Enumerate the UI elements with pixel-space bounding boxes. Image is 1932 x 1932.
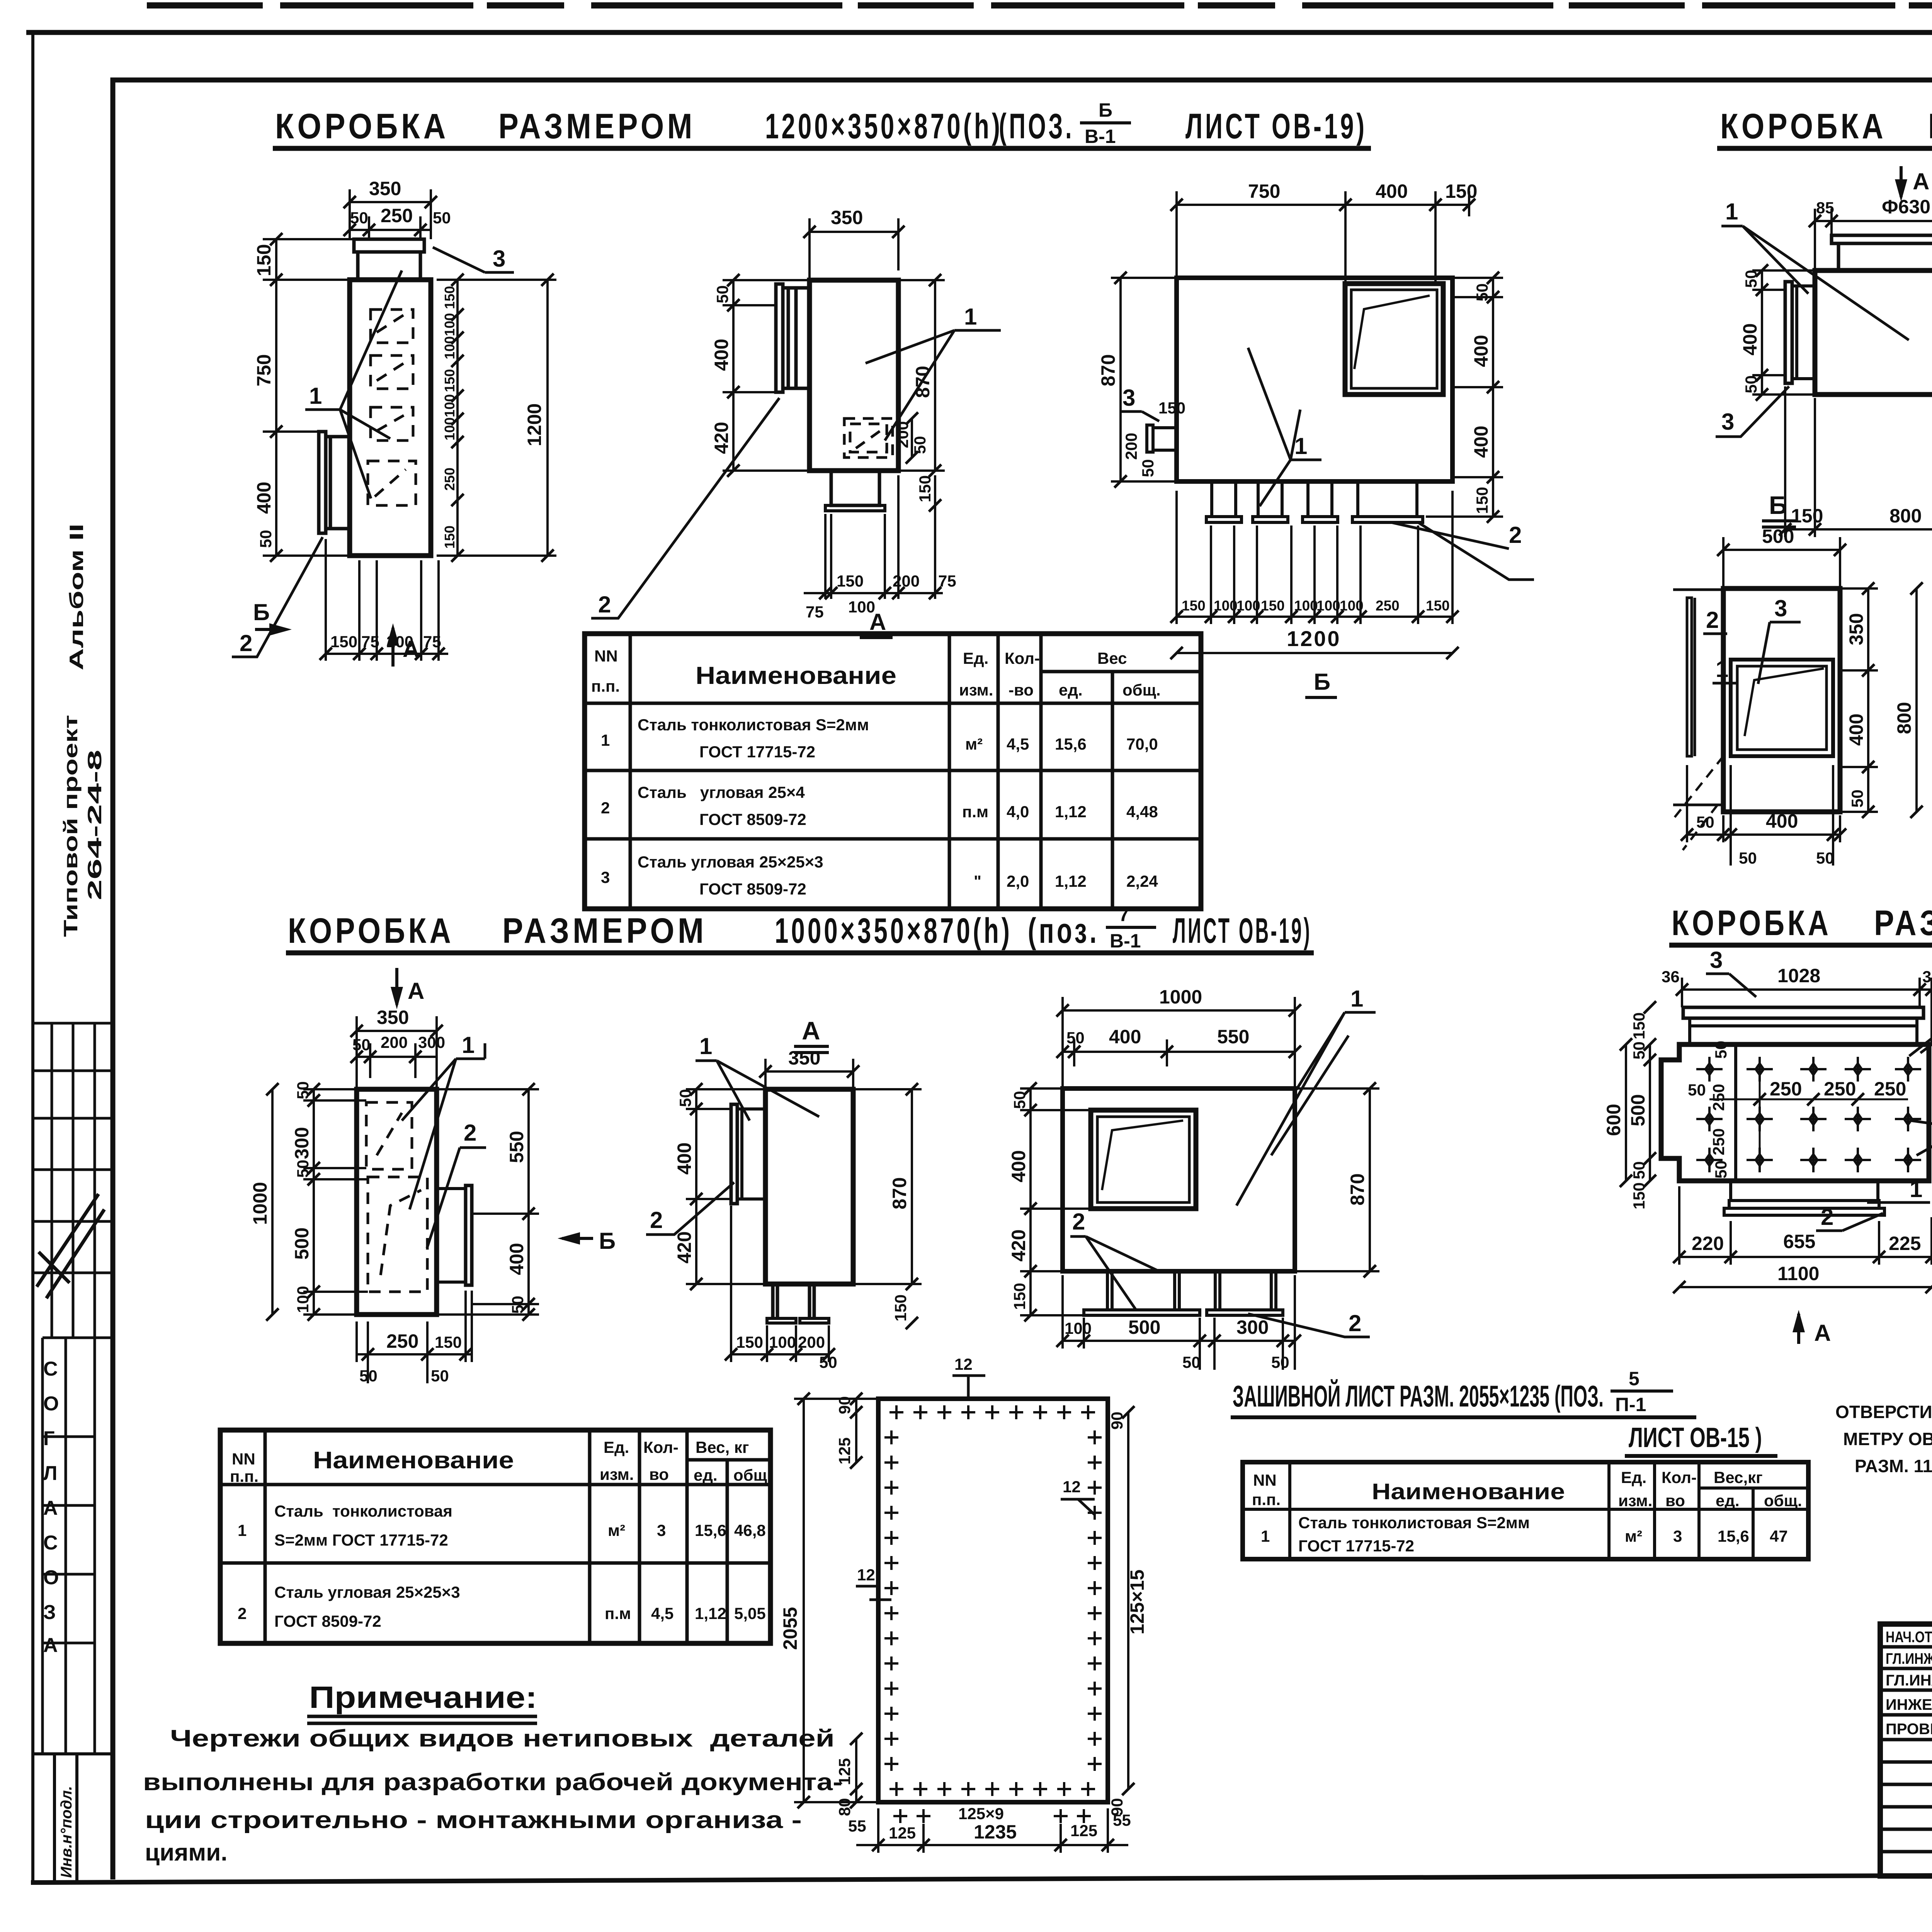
v21 top dims 85 Ф630 85 — [1809, 196, 1932, 270]
svg-text:А: А — [802, 1016, 820, 1045]
label 12 top — [952, 1355, 985, 1399]
sheet outline with stud marks — [878, 1399, 1108, 1802]
svg-text:ОТВЕРСТИЯ ПО ПЕРИ-: ОТВЕРСТИЯ ПО ПЕРИ- — [1835, 1402, 1932, 1422]
svg-text:м²: м² — [608, 1521, 625, 1539]
svg-text:420: 420 — [673, 1231, 695, 1264]
margin bottom box — [33, 1754, 113, 1880]
v33 top dim 1000 — [1056, 986, 1301, 1088]
svg-text:350: 350 — [831, 207, 863, 228]
margin vertical text Инв.No подл. — [58, 1786, 75, 1878]
svg-text:250: 250 — [1824, 1078, 1856, 1100]
svg-text:ПРОВЕР.: ПРОВЕР. — [1886, 1721, 1932, 1738]
svg-text:Г: Г — [43, 1427, 54, 1450]
svg-text:47: 47 — [1770, 1527, 1788, 1545]
svg-text:Наименование: Наименование — [696, 662, 896, 689]
svg-text:400: 400 — [1739, 323, 1761, 355]
note text lines — [143, 1725, 842, 1866]
svg-text:50: 50 — [1688, 1081, 1706, 1099]
svg-text:50: 50 — [1712, 1160, 1730, 1179]
svg-text:500: 500 — [1627, 1094, 1649, 1126]
label 12 right — [1061, 1478, 1095, 1515]
v41 plan view: main body — [1661, 1007, 1929, 1215]
svg-text:100: 100 — [1316, 598, 1340, 614]
v32 leader 2 — [646, 1182, 734, 1235]
svg-text:2,0: 2,0 — [1007, 872, 1029, 890]
v41 leader 1 bottom — [1867, 1176, 1930, 1202]
view2 right small dims 200 50 — [893, 412, 941, 512]
svg-text:1000: 1000 — [249, 1182, 271, 1225]
svg-text:1: 1 — [238, 1521, 247, 1539]
svg-text:15,6: 15,6 — [695, 1521, 726, 1539]
svg-text:1000×350×870(h): 1000×350×870(h) — [775, 911, 1012, 951]
svg-text:350: 350 — [369, 178, 401, 199]
v23 label 2 — [1703, 607, 1727, 634]
svg-text:4,5: 4,5 — [1007, 735, 1029, 753]
v33 leader 2 right — [1248, 1310, 1370, 1337]
svg-text:А: А — [408, 978, 424, 1004]
svg-text:3: 3 — [601, 868, 610, 886]
svg-text:3: 3 — [1721, 409, 1734, 435]
svg-text:м²: м² — [965, 735, 983, 753]
svg-text:225: 225 — [1889, 1233, 1921, 1254]
svg-text:100: 100 — [442, 417, 457, 440]
svg-text:Сталь угловая 25×25×3: Сталь угловая 25×25×3 — [638, 853, 823, 871]
svg-text:КОРОБКА: КОРОБКА — [1672, 903, 1832, 943]
svg-text:250: 250 — [1874, 1078, 1906, 1100]
margin vertical text: 264-24-8 — [84, 750, 105, 900]
svg-text:Сталь угловая 25×25×3: Сталь угловая 25×25×3 — [274, 1583, 460, 1601]
svg-text:150: 150 — [1473, 487, 1491, 514]
v41 bottom dims — [1673, 1186, 1932, 1293]
view1 leader 1 — [305, 270, 402, 498]
left small dims 125 80 bottom — [835, 1733, 866, 1835]
v33 leader 1 — [1236, 986, 1376, 1206]
svg-text:12: 12 — [954, 1355, 973, 1373]
svg-text:": " — [974, 872, 981, 890]
scan top edge artifact — [147, 2, 1932, 9]
v21 leader 3 left — [1716, 386, 1789, 437]
svg-text:NN: NN — [594, 647, 618, 665]
view3 bottom dim chain — [1170, 491, 1459, 624]
v23 bottom dims — [1681, 765, 1846, 867]
svg-text:1000: 1000 — [1159, 986, 1202, 1008]
svg-text:1: 1 — [1294, 433, 1307, 459]
svg-text:50: 50 — [433, 209, 451, 227]
view1 right dim chain — [442, 274, 464, 562]
svg-text:Вес,кг: Вес,кг — [1714, 1468, 1763, 1486]
v33 bottom dims — [1056, 1275, 1301, 1371]
v31 leader 2 — [427, 1120, 486, 1248]
svg-text:50: 50 — [819, 1353, 837, 1371]
v31 right dim chain — [437, 1083, 539, 1321]
svg-text:Наименование: Наименование — [313, 1447, 514, 1474]
svg-text:200: 200 — [1122, 433, 1140, 460]
svg-text:90: 90 — [1108, 1412, 1126, 1430]
svg-text:150: 150 — [1182, 598, 1206, 614]
svg-text:общ.: общ. — [1764, 1492, 1802, 1510]
svg-text:2: 2 — [1706, 607, 1719, 633]
svg-text:100: 100 — [1065, 1319, 1092, 1337]
view3 left flange — [1147, 425, 1177, 452]
svg-text:1: 1 — [309, 383, 322, 409]
svg-text:Инв.н°подл.: Инв.н°подл. — [58, 1786, 75, 1878]
svg-text:п.п.: п.п. — [1252, 1490, 1281, 1509]
svg-text:75: 75 — [423, 633, 441, 651]
svg-text:Кол-: Кол- — [643, 1438, 679, 1456]
svg-text:1: 1 — [1910, 1176, 1922, 1202]
svg-text:2055: 2055 — [779, 1607, 801, 1650]
view3 leader 3 and small dims — [1121, 385, 1185, 477]
v31 left dim chain — [291, 1081, 368, 1321]
svg-text:(поз.: (поз. — [1028, 911, 1099, 951]
svg-text:400: 400 — [1470, 426, 1492, 458]
svg-text:100: 100 — [294, 1286, 312, 1313]
svg-text:1100: 1100 — [1777, 1263, 1819, 1284]
v41 leader 3 — [1706, 947, 1756, 997]
svg-text:50: 50 — [1473, 283, 1491, 301]
svg-text:Типовой проект: Типовой проект — [60, 715, 82, 937]
svg-text:125: 125 — [835, 1437, 854, 1464]
svg-text:КОРОБКА: КОРОБКА — [275, 107, 449, 146]
svg-text:250: 250 — [1709, 1084, 1728, 1111]
svg-text:3: 3 — [1122, 385, 1135, 411]
svg-text:1: 1 — [1716, 656, 1728, 682]
svg-text:В-1: В-1 — [1085, 126, 1116, 147]
svg-text:Кол-: Кол- — [1005, 649, 1040, 667]
svg-text:15,6: 15,6 — [1718, 1527, 1749, 1545]
v31 section mark Б right — [558, 1228, 616, 1254]
svg-text:300: 300 — [1236, 1316, 1269, 1338]
v41 leader 1 top — [1909, 996, 1932, 1056]
view2 leader 1 — [866, 304, 1001, 440]
v33 bottom flanges — [1084, 1271, 1283, 1315]
svg-text:400: 400 — [1470, 335, 1492, 367]
view2 section label A — [860, 609, 893, 638]
svg-text:(ПОЗ.: (ПОЗ. — [999, 107, 1074, 146]
svg-text:циями.: циями. — [145, 1839, 228, 1866]
svg-text:500: 500 — [1762, 526, 1794, 547]
svg-text:50: 50 — [509, 1296, 527, 1314]
svg-text:7: 7 — [1119, 904, 1129, 925]
svg-text:50: 50 — [1742, 270, 1760, 288]
view2 side: main body — [810, 280, 898, 511]
svg-text:ед.: ед. — [694, 1466, 718, 1484]
stud marks right column — [1088, 1430, 1102, 1771]
stamp labels column — [1886, 1629, 1932, 1738]
svg-text:400: 400 — [253, 482, 275, 514]
svg-text:ГОСТ 8509-72: ГОСТ 8509-72 — [699, 880, 806, 898]
svg-text:655: 655 — [1783, 1231, 1815, 1252]
view3 leader 2 right — [1391, 522, 1534, 580]
svg-text:А: А — [1913, 168, 1929, 194]
svg-text:400: 400 — [1845, 714, 1867, 746]
svg-text:100: 100 — [1214, 598, 1238, 614]
title: Зашивной лист разм. 2055x1235 — [1231, 1368, 1777, 1456]
v32 section label A — [794, 1016, 829, 1053]
label 12 left — [856, 1566, 891, 1600]
svg-text:ции строительно - монтажными о: ции строительно - монтажными организа - — [145, 1807, 802, 1833]
svg-text:1: 1 — [964, 304, 977, 330]
view1 top dim 350 — [344, 178, 451, 239]
title: КОРОБКА РАЗМЕРОМ 500x800x800(h) — [1717, 97, 1932, 148]
table4 parts list — [1243, 1462, 1808, 1559]
svg-text:1028: 1028 — [1777, 965, 1820, 986]
sheet left border line — [31, 31, 34, 1883]
svg-text:2: 2 — [650, 1207, 663, 1233]
svg-text:870: 870 — [889, 1177, 910, 1209]
svg-text:400: 400 — [673, 1143, 695, 1175]
svg-text:ГОСТ 17715-72: ГОСТ 17715-72 — [699, 743, 815, 761]
svg-text:100: 100 — [1340, 598, 1364, 614]
title: КОРОБКА РАЗМЕРОМ 1200x350x870(h) — [273, 99, 1371, 148]
margin vertical text: Альбом II — [66, 524, 87, 670]
svg-text:50: 50 — [1630, 1041, 1648, 1060]
svg-text:80: 80 — [835, 1798, 854, 1816]
svg-text:выполнены для разработки рабоч: выполнены для разработки рабочей докумен… — [143, 1769, 842, 1796]
svg-text:Л: Л — [43, 1462, 58, 1485]
svg-text:3: 3 — [493, 246, 505, 272]
v23 leader 3 — [1758, 595, 1801, 684]
svg-text:125: 125 — [1070, 1821, 1097, 1840]
svg-text:1200: 1200 — [524, 403, 545, 446]
svg-text:100: 100 — [442, 336, 457, 359]
sheet bottom border line — [31, 1872, 1932, 1883]
svg-text:150: 150 — [837, 572, 864, 590]
svg-text:1: 1 — [1350, 986, 1363, 1012]
svg-text:250: 250 — [1376, 598, 1400, 614]
svg-text:100: 100 — [442, 394, 457, 417]
svg-text:220: 220 — [1692, 1233, 1724, 1254]
svg-text:125×9: 125×9 — [958, 1804, 1004, 1823]
svg-text:1200×350×870(h): 1200×350×870(h) — [765, 107, 1003, 146]
svg-text:общ.: общ. — [1122, 681, 1161, 699]
svg-text:во: во — [649, 1465, 669, 1483]
view2 dashed opening — [844, 418, 893, 457]
svg-text:50: 50 — [257, 530, 275, 548]
svg-text:50: 50 — [1271, 1353, 1289, 1371]
svg-text:200: 200 — [381, 1033, 408, 1051]
svg-text:Сталь тонколистовая S=2мм: Сталь тонколистовая S=2мм — [638, 716, 869, 734]
svg-text:м²: м² — [1625, 1527, 1642, 1545]
svg-text:п.п.: п.п. — [230, 1467, 259, 1485]
svg-text:п.м: п.м — [962, 803, 988, 821]
view1 front: main body — [350, 239, 431, 556]
svg-text:800: 800 — [1889, 505, 1922, 527]
note header Примечание — [307, 1680, 537, 1723]
svg-text:36: 36 — [1662, 968, 1680, 986]
svg-text:150: 150 — [1630, 1012, 1648, 1039]
svg-text:50: 50 — [350, 209, 368, 227]
v31 leader 1 — [402, 1032, 485, 1209]
view1 leader 2 — [232, 537, 323, 657]
svg-text:600: 600 — [1603, 1104, 1624, 1136]
svg-text:50: 50 — [1066, 1029, 1085, 1047]
svg-text:А: А — [1814, 1320, 1831, 1346]
svg-text:Вес: Вес — [1097, 649, 1127, 667]
svg-text:Ед.: Ед. — [1621, 1468, 1646, 1486]
v23 label 1 — [1713, 656, 1736, 683]
svg-text:500: 500 — [291, 1228, 313, 1260]
svg-text:420: 420 — [711, 422, 732, 454]
v41 left dim chain — [1603, 1001, 1656, 1209]
view3 leader 1 — [1248, 348, 1321, 506]
v21 leader 1 — [1721, 199, 1909, 340]
v33 right dim 870 — [1295, 1082, 1379, 1277]
svg-text:РАЗМЕРОМ: РАЗМЕРОМ — [1928, 107, 1932, 146]
svg-text:ГЛ.ИНЖ.ОТД.: ГЛ.ИНЖ.ОТД. — [1886, 1650, 1932, 1667]
svg-text:75: 75 — [361, 633, 379, 651]
svg-text:150: 150 — [253, 244, 275, 276]
svg-text:С: С — [43, 1358, 58, 1380]
svg-text:50: 50 — [1848, 789, 1866, 808]
v23 right dim chain — [1840, 582, 1878, 818]
svg-text:РАЗМЕРОМ: РАЗМЕРОМ — [1874, 903, 1932, 943]
svg-text:ИНЖЕНЕР: ИНЖЕНЕР — [1886, 1696, 1932, 1713]
svg-text:50: 50 — [1010, 1091, 1029, 1109]
svg-text:ЛИСТ ОВ-15 ): ЛИСТ ОВ-15 ) — [1629, 1422, 1762, 1453]
svg-text:550: 550 — [1217, 1026, 1249, 1048]
v21 left dim chain — [1739, 264, 1815, 401]
svg-text:100: 100 — [1236, 598, 1260, 614]
svg-text:Б: Б — [1314, 669, 1330, 695]
svg-text:870: 870 — [1097, 354, 1119, 386]
svg-text:12: 12 — [857, 1566, 875, 1584]
svg-text:125×15: 125×15 — [1126, 1570, 1148, 1634]
view2 top dim 350 — [803, 207, 905, 280]
svg-text:ЗАШИВНОЙ ЛИСТ РАЗМ. 2055×1235: ЗАШИВНОЙ ЛИСТ РАЗМ. 2055×1235 (ПОЗ. — [1233, 1379, 1604, 1413]
svg-text:NN: NN — [232, 1450, 255, 1468]
v31 front: main body — [357, 1089, 437, 1315]
svg-text:150: 150 — [1445, 180, 1477, 202]
svg-text:150: 150 — [442, 526, 457, 549]
svg-text:РАЗМЕРОМ: РАЗМЕРОМ — [502, 911, 707, 951]
view1 dashed openings — [368, 310, 416, 505]
svg-text:500: 500 — [1128, 1316, 1160, 1338]
svg-text:РАЗМЕРОМ: РАЗМЕРОМ — [498, 107, 696, 146]
svg-text:50: 50 — [713, 285, 731, 303]
svg-text:Сталь угловая 25×4: Сталь угловая 25×4 — [638, 783, 805, 801]
svg-text:250: 250 — [386, 1330, 418, 1352]
svg-text:Ф630: Ф630 — [1882, 196, 1930, 218]
svg-text:1: 1 — [462, 1032, 474, 1058]
view3 bottom flanges — [1206, 481, 1423, 522]
v41 section mark A bottom — [1793, 1310, 1831, 1346]
svg-text:150: 150 — [916, 475, 934, 502]
svg-text:12: 12 — [1063, 1478, 1081, 1496]
svg-text:С: С — [43, 1532, 58, 1554]
svg-text:50: 50 — [294, 1160, 312, 1178]
v32 top dim 350 — [759, 1047, 859, 1089]
svg-text:2: 2 — [601, 799, 610, 817]
stud marks top row — [889, 1405, 1095, 1419]
svg-text:100: 100 — [1294, 598, 1318, 614]
svg-text:Ед.: Ед. — [963, 649, 988, 667]
svg-text:ед.: ед. — [1059, 681, 1083, 699]
svg-text:150: 150 — [1791, 505, 1823, 527]
svg-text:400: 400 — [1376, 180, 1408, 202]
svg-text:ЛИСТ ОВ-19): ЛИСТ ОВ-19) — [1173, 911, 1312, 951]
svg-text:50: 50 — [911, 436, 929, 454]
svg-text:100: 100 — [769, 1333, 796, 1351]
sheet top border line — [26, 30, 1932, 35]
view2 bottom dims — [804, 475, 956, 621]
svg-text:75: 75 — [938, 572, 956, 590]
svg-text:2: 2 — [240, 630, 252, 656]
svg-text:50: 50 — [1816, 849, 1834, 867]
svg-text:1: 1 — [1261, 1527, 1270, 1545]
v23 section label Б — [1762, 491, 1796, 527]
svg-text:1: 1 — [1725, 199, 1738, 224]
svg-text:КОРОБКА: КОРОБКА — [1720, 107, 1886, 146]
v32 bottom dims — [725, 1206, 837, 1371]
v31 bottom dims — [357, 1291, 472, 1385]
v31 right flange — [437, 1185, 472, 1285]
svg-text:3: 3 — [1710, 947, 1723, 973]
margin approval grid — [33, 1023, 113, 1338]
svg-text:15,6: 15,6 — [1055, 735, 1087, 753]
svg-text:85: 85 — [1816, 199, 1834, 217]
svg-text:250: 250 — [442, 468, 457, 491]
svg-text:2: 2 — [1821, 1204, 1833, 1230]
v32 right dim 870 — [853, 1083, 922, 1329]
view2 left dim chain — [711, 274, 810, 477]
v32 left dim chain — [673, 1083, 765, 1290]
svg-text:75: 75 — [806, 603, 824, 621]
bottom dims 125 1235 125 — [856, 1804, 1131, 1853]
svg-text:изм.: изм. — [600, 1465, 634, 1483]
svg-text:400: 400 — [1766, 810, 1798, 832]
svg-text:200: 200 — [893, 572, 920, 590]
svg-text:90: 90 — [835, 1396, 854, 1414]
svg-text:800: 800 — [1893, 702, 1915, 734]
margin lower grid — [43, 1338, 113, 1754]
svg-text:3: 3 — [1673, 1527, 1682, 1545]
svg-text:150: 150 — [435, 1333, 462, 1351]
svg-text:50: 50 — [1182, 1353, 1201, 1371]
svg-text:50: 50 — [1139, 459, 1157, 477]
svg-text:Примечание:: Примечание: — [309, 1680, 537, 1714]
svg-text:2,24: 2,24 — [1126, 872, 1158, 890]
v33 Б view: main body — [1063, 1088, 1295, 1271]
view3 right dim chain — [1426, 272, 1503, 523]
svg-text:О: О — [43, 1393, 59, 1415]
v33 left dim chain — [1008, 1082, 1091, 1321]
table3 parts list — [220, 1430, 772, 1643]
v31 section mark A top — [391, 968, 424, 1009]
v32 A view: main body — [765, 1089, 853, 1323]
svg-text:Кол-: Кол- — [1662, 1468, 1697, 1486]
svg-text:О: О — [43, 1566, 59, 1589]
svg-text:ГОСТ 8509-72: ГОСТ 8509-72 — [274, 1612, 381, 1630]
svg-text:А: А — [869, 609, 886, 635]
svg-text:З: З — [43, 1601, 56, 1624]
svg-text:ГОСТ 17715-72: ГОСТ 17715-72 — [1298, 1537, 1414, 1555]
title: КОРОБКА РАЗМЕРОМ 1000x350x870(h) — [286, 904, 1314, 953]
svg-text:125: 125 — [889, 1824, 916, 1842]
svg-text:1,12: 1,12 — [1055, 872, 1087, 890]
left small dims 90 125 — [835, 1393, 862, 1469]
svg-text:50: 50 — [294, 1081, 312, 1099]
v31 dim 1000 — [249, 1083, 279, 1321]
svg-text:750: 750 — [253, 354, 275, 386]
svg-text:150: 150 — [1261, 598, 1285, 614]
svg-text:1: 1 — [601, 731, 610, 749]
svg-text:Б: Б — [1099, 99, 1112, 121]
svg-text:70,0: 70,0 — [1126, 735, 1158, 753]
svg-text:300: 300 — [418, 1033, 445, 1051]
v32 leader 1 — [696, 1033, 819, 1121]
svg-text:S=2мм ГОСТ 17715-72: S=2мм ГОСТ 17715-72 — [274, 1531, 448, 1549]
